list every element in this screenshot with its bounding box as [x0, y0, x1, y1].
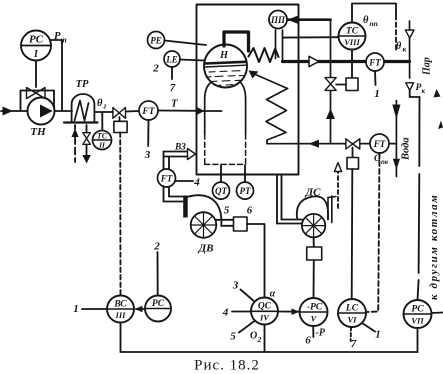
svg-text:VI: VI [348, 315, 358, 325]
svg-text:ТС: ТС [346, 27, 359, 37]
air intake duct VZ [164, 151, 188, 153]
svg-text:θ: θ [396, 41, 402, 52]
svg-text:пп: пп [370, 19, 378, 28]
valve fuel control [113, 108, 126, 119]
wire fuel line to furnace [158, 110, 197, 112]
svg-text:к: к [422, 87, 426, 95]
arrow injection up [326, 109, 335, 120]
valve feedwater [346, 139, 360, 149]
actuator DS [307, 247, 322, 260]
sensor FT feedwater Gpv [370, 134, 389, 153]
svg-text:2: 2 [152, 63, 159, 75]
arrow water down 1 [392, 105, 400, 120]
controller LC-VI [338, 299, 366, 327]
stub -P [312, 326, 314, 337]
wire channel2 stub [157, 252, 159, 296]
sensor FT1 steam flow [366, 53, 384, 71]
arrow feedwater (solid, left) [309, 140, 320, 148]
furnace outline [205, 82, 212, 135]
condensate valve under heater [86, 125, 88, 133]
label 1 stub [362, 323, 375, 332]
svg-text:3: 3 [144, 149, 151, 161]
controller PC-VII [404, 300, 432, 328]
sensor LE [164, 51, 180, 67]
wire actuator to LC-VI [351, 169, 354, 299]
svg-text:-РС: -РС [307, 303, 323, 313]
svg-text:ТН: ТН [30, 126, 46, 138]
economizer coil [266, 89, 288, 144]
wire economizer to drum [252, 73, 288, 89]
svg-text:FT: FT [368, 58, 381, 68]
flue gas exit arrow [337, 172, 339, 209]
duct to FT4 [163, 152, 165, 171]
arrow header inlet (open) [405, 30, 414, 38]
fan DV wheel [191, 212, 217, 238]
wire TC-VIII loop to theta-k [352, 4, 396, 23]
wire fuel inlet line [1, 110, 27, 112]
condensate arrow down [86, 144, 88, 156]
boiler casing [197, 5, 299, 175]
svg-text:Пар: Пар [422, 57, 433, 76]
svg-text:ТС: ТС [97, 132, 108, 141]
svg-text:Т: Т [171, 99, 178, 110]
heater TP coil [75, 101, 89, 121]
wire Pk to PC-VII [410, 90, 420, 97]
wire Gpv to LC-VI (dashed) [366, 153, 380, 312]
wire QC-IV to bus [264, 325, 266, 353]
svg-text:РС: РС [411, 305, 424, 315]
label 4 stub [232, 311, 251, 313]
arrow feedwater into drum [249, 71, 259, 79]
wire injection to PP with arrow [288, 18, 331, 21]
arrow fuel inlet [3, 107, 14, 116]
wire PC2 arrow to BC-III [136, 308, 145, 310]
controller PC-I [21, 31, 51, 61]
svg-text:Рис. 18.2: Рис. 18.2 [194, 358, 260, 374]
svg-text:ВЗ: ВЗ [174, 143, 186, 153]
fan DV inlet flange [183, 196, 188, 218]
wire PC-I pressure tap Pt [51, 40, 63, 110]
arrow fuel into furnace [196, 107, 205, 115]
svg-text:пв: пв [381, 158, 388, 166]
svg-text:1: 1 [73, 303, 79, 315]
wire PC-VII to right edge [432, 312, 443, 315]
svg-text:III: III [115, 310, 127, 320]
svg-text:θ: θ [97, 98, 103, 109]
svg-text:РТ: РТ [240, 186, 251, 196]
svg-text:РС: РС [152, 299, 165, 309]
feedwater line [267, 143, 396, 145]
sensor PT6 [237, 182, 254, 199]
svg-text:1: 1 [374, 88, 380, 100]
wire PC-VII to bus [417, 328, 419, 352]
svg-text:II: II [98, 141, 106, 150]
wire actuator to QC-IV [247, 224, 265, 298]
svg-text:QC: QC [258, 302, 272, 312]
heater TP body [72, 94, 95, 122]
svg-text:PC: PC [29, 34, 44, 46]
svg-text:FT: FT [141, 107, 155, 117]
wire actuator to PC-V [313, 260, 315, 298]
svg-text:ВС: ВС [113, 300, 127, 310]
wire valve to FT3 [126, 110, 140, 113]
arrow air intake (open) [188, 149, 196, 160]
valve injection [325, 78, 336, 91]
svg-text:ТР: ТР [76, 79, 89, 90]
actuator injection valve [346, 78, 358, 91]
svg-text:6: 6 [305, 335, 311, 347]
sensor PE [148, 32, 165, 49]
svg-text:FТ: FТ [373, 139, 386, 149]
steam drum [204, 45, 247, 88]
svg-text:Н: Н [219, 50, 229, 61]
svg-text:4: 4 [222, 307, 229, 319]
svg-text:Вода: Вода [401, 137, 412, 161]
sensor QT5 [213, 182, 230, 199]
svg-text:т: т [61, 36, 67, 45]
wire PC-I to bypass valve [35, 61, 37, 88]
label 7 stub (dashed) [350, 327, 352, 341]
bus line [121, 351, 418, 353]
fan DV scroll [187, 195, 222, 226]
controller TC-II [93, 131, 112, 150]
arrow right edge 2 [438, 121, 443, 130]
actuator air damper [234, 217, 248, 231]
svg-text:7: 7 [170, 82, 176, 94]
arrow water down 2 [393, 159, 400, 170]
svg-text:ДС: ДС [305, 187, 322, 199]
wire DS to actuator [313, 237, 315, 247]
svg-text:6: 6 [247, 205, 253, 217]
sensor FT3 [139, 101, 158, 120]
fan DS wheel [302, 214, 325, 237]
svg-text:1: 1 [375, 329, 381, 341]
wire FT4 label stub [176, 180, 194, 182]
sensor PP [269, 11, 287, 29]
svg-text:LC: LC [345, 304, 359, 314]
svg-text:О: О [250, 331, 257, 342]
wire fuel line pump to heater [27, 110, 72, 112]
svg-text:к: к [403, 45, 407, 54]
svg-text:VIII: VIII [344, 37, 360, 47]
water supply line [395, 101, 397, 177]
svg-text:-Р: -Р [316, 328, 326, 339]
wire FT3 stub [147, 120, 149, 146]
injection water line [330, 20, 332, 144]
controller PC-V [300, 298, 328, 326]
svg-text:2: 2 [153, 241, 160, 253]
actuator feedwater valve [352, 148, 354, 158]
controller PC2 [145, 296, 171, 322]
sensor FT4 air flow [158, 169, 176, 187]
svg-text:3: 3 [232, 280, 239, 292]
wire heater to fuel valve [94, 111, 113, 113]
wire pump bypass loop [21, 91, 55, 112]
wire TC-VIII to injection valve actuator [351, 50, 353, 79]
heating steam arrow up under heater [72, 129, 79, 138]
steam riser to PP [275, 30, 277, 59]
svg-text:г: г [104, 102, 107, 111]
duct FT4 to fan DV [164, 186, 184, 202]
wire QC-IV arrow to PC-V [278, 311, 300, 313]
svg-text:5: 5 [230, 331, 236, 343]
svg-text:5: 5 [224, 205, 230, 217]
steam header [409, 21, 411, 78]
wire label1 to BC-III [82, 308, 107, 310]
superheater coil [249, 48, 279, 62]
controller TC-VIII [339, 23, 366, 50]
controller BC-III [107, 296, 134, 323]
valve recirculation [27, 88, 46, 99]
wire riser to TC-VIII [283, 36, 339, 38]
tap Pk (open arrow) [406, 83, 414, 91]
svg-text:LЕ: LЕ [165, 55, 178, 65]
flue duct to DS fan [276, 175, 278, 224]
svg-text:FT: FT [160, 174, 173, 184]
svg-text:к другим котлам: к другим котлам [428, 194, 440, 300]
svg-text:θ: θ [363, 15, 369, 26]
svg-text:α: α [270, 289, 276, 300]
svg-text:ПП: ПП [270, 15, 286, 25]
arrow right edge 1 [434, 89, 441, 98]
svg-text:IV: IV [259, 313, 270, 323]
heater TP baseline [64, 121, 98, 123]
wire actuator to BC-III (dashed) [119, 133, 121, 296]
label 3 stub [241, 290, 255, 302]
label 5 stub [239, 321, 255, 333]
svg-text:2: 2 [257, 335, 262, 344]
svg-text:РЕ: РЕ [150, 36, 162, 46]
actuator fuel valve [119, 117, 121, 121]
arrow steam flow (open) [309, 56, 319, 66]
svg-text:7: 7 [351, 338, 357, 350]
pump TH [28, 98, 55, 125]
controller QC-IV [251, 298, 278, 325]
wire theta-g tap to TC-II [101, 112, 103, 131]
main steam line [283, 60, 410, 63]
wire BC-III to bus [120, 323, 122, 353]
svg-text:QТ: QТ [215, 186, 227, 196]
steam pipe drum to superheater [224, 32, 249, 51]
svg-text:4: 4 [193, 177, 200, 189]
fan DS scroll [297, 196, 328, 219]
svg-text:VII: VII [411, 316, 424, 326]
svg-text:ДВ: ДВ [198, 243, 214, 255]
